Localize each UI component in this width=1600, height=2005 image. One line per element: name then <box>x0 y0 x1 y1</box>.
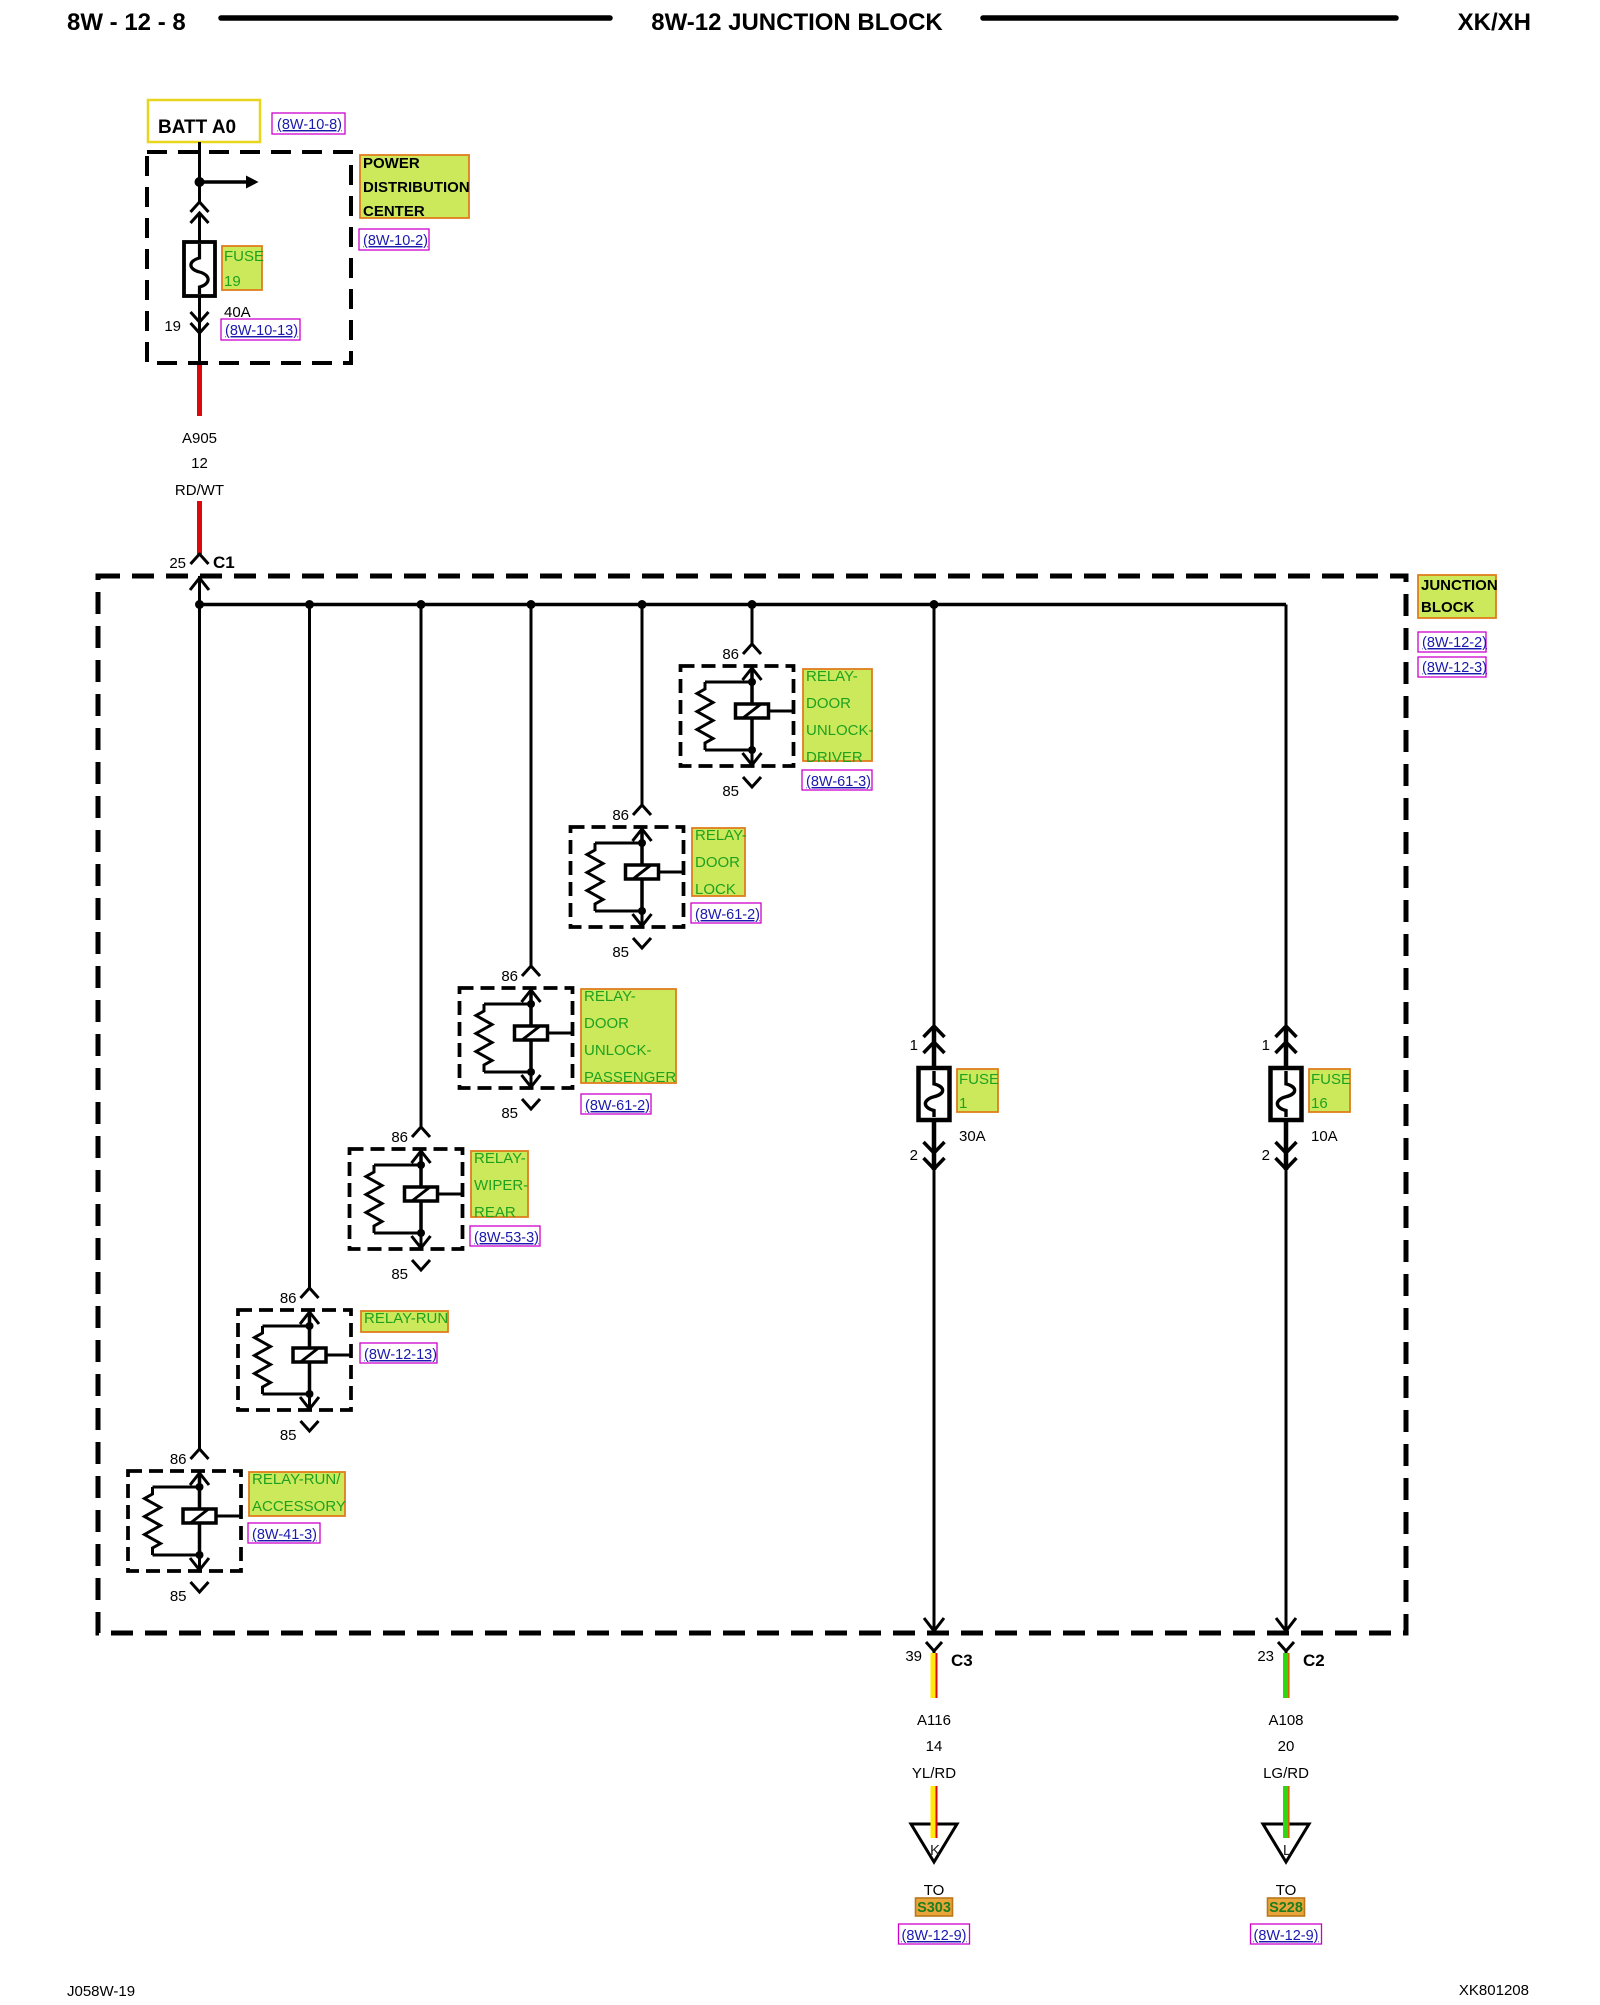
label JUNCTION BLOCK <box>1418 575 1496 618</box>
link 8W-10-13 <box>221 319 300 340</box>
svg-text:12: 12 <box>191 455 208 472</box>
svg-text:RELAY-: RELAY- <box>695 827 747 844</box>
svg-text:L: L <box>1283 1842 1291 1859</box>
svg-text:RELAY-: RELAY- <box>584 988 636 1005</box>
svg-text:86: 86 <box>170 1451 187 1468</box>
connector pin 86 of U3 RELAY-DOOR UNLOCK-PASSENGER <box>522 966 540 976</box>
svg-text:86: 86 <box>391 1129 408 1146</box>
svg-text:19: 19 <box>164 318 181 335</box>
node bus tap x=752 <box>748 600 757 609</box>
wire A116 lower segment (YL/RD) <box>931 1786 936 1838</box>
wire A905 upper segment (RD/WT) <box>197 365 202 416</box>
svg-text:(8W-12-2): (8W-12-2) <box>1422 635 1487 651</box>
svg-text:DOOR: DOOR <box>584 1015 629 1032</box>
wire from BATT A0 into PDC <box>198 142 201 203</box>
node bus tap x=309.5 <box>305 600 314 609</box>
link 8W-12-2 <box>1418 632 1486 652</box>
svg-text:DOOR: DOOR <box>806 695 851 712</box>
link (8W-61-2) of U3 RELAY-DOOR UNLOCK-PASSENGER <box>581 1094 651 1114</box>
connector pin 86 of U5 RELAY-RUN <box>301 1288 319 1298</box>
label U5 RELAY-RUN <box>361 1311 448 1332</box>
svg-text:TO: TO <box>924 1882 945 1899</box>
svg-text:30A: 30A <box>959 1128 986 1145</box>
link 8W-10-2 <box>359 229 429 250</box>
connector C1 pin 25 <box>191 554 209 564</box>
svg-text:16: 16 <box>1311 1095 1328 1112</box>
svg-text:25: 25 <box>169 555 186 572</box>
svg-text:85: 85 <box>170 1588 187 1605</box>
connector pin 85 of U1 RELAY-DOOR UNLOCK-DRIVER <box>743 777 761 787</box>
connector pin 86 of U6 RELAY-RUN/ACCESSORY <box>191 1449 209 1459</box>
svg-text:C1: C1 <box>213 553 235 572</box>
relay U6 RELAY-RUN/ACCESSORY <box>128 1471 241 1571</box>
svg-text:REAR: REAR <box>474 1204 516 1221</box>
svg-text:XK801208: XK801208 <box>1459 1982 1529 1999</box>
svg-text:(8W-12-9): (8W-12-9) <box>902 1928 967 1944</box>
svg-text:14: 14 <box>926 1738 943 1755</box>
power distribution center box <box>147 152 351 363</box>
node bus tap x=421 <box>417 600 426 609</box>
svg-text:86: 86 <box>612 807 629 824</box>
svg-text:FUSE: FUSE <box>959 1071 999 1088</box>
svg-text:CENTER: CENTER <box>363 203 425 220</box>
connector pin 86 of U1 RELAY-DOOR UNLOCK-DRIVER <box>743 644 761 654</box>
svg-text:86: 86 <box>722 646 739 663</box>
relay U5 RELAY-RUN <box>238 1310 351 1410</box>
link 8W-10-8 <box>272 113 345 134</box>
wire drop to U5 RELAY-RUN <box>308 605 311 1289</box>
header rule left <box>221 15 610 21</box>
svg-text:C2: C2 <box>1303 1651 1325 1670</box>
connector pin 1 of fuse F16 <box>1276 1026 1297 1037</box>
node bus tap x=531 <box>527 600 536 609</box>
svg-text:TO: TO <box>1276 1882 1297 1899</box>
wire below fuse F1 <box>933 1169 936 1631</box>
wire branch to right with arrow <box>200 180 248 184</box>
svg-text:86: 86 <box>501 968 518 985</box>
link (8W-61-2) of U2 RELAY-DOOR LOCK <box>691 903 761 923</box>
link 8W-12-3 <box>1418 657 1486 677</box>
svg-text:XK/XH: XK/XH <box>1458 9 1531 36</box>
svg-text:A905: A905 <box>182 430 217 447</box>
svg-text:86: 86 <box>280 1290 297 1307</box>
wire drop to U6 RELAY-RUN/ACCESSORY <box>198 605 201 1450</box>
wire A905 lower segment (RD/WT) <box>197 501 202 554</box>
connector pin 85 of U2 RELAY-DOOR LOCK <box>633 938 651 948</box>
link 8W-12-9 of S228 <box>1251 1924 1322 1944</box>
svg-text:39: 39 <box>905 1648 922 1665</box>
wire drop to U2 RELAY-DOOR LOCK <box>641 605 644 806</box>
svg-text:RELAY-: RELAY- <box>806 668 858 685</box>
svg-text:20: 20 <box>1278 1738 1295 1755</box>
svg-text:85: 85 <box>501 1105 518 1122</box>
svg-text:(8W-53-3): (8W-53-3) <box>474 1230 539 1246</box>
connector pin 85 of U3 RELAY-DOOR UNLOCK-PASSENGER <box>522 1099 540 1109</box>
svg-text:(8W-61-3): (8W-61-3) <box>806 774 871 790</box>
wire A108 lower segment (LG/RD) <box>1283 1786 1288 1838</box>
svg-text:(8W-12-9): (8W-12-9) <box>1254 1928 1319 1944</box>
node branch junction <box>195 177 205 187</box>
wire A108 upper segment (LG/RD) <box>1283 1653 1288 1698</box>
svg-text:DISTRIBUTION: DISTRIBUTION <box>363 179 470 196</box>
label FUSE 1 <box>957 1069 998 1112</box>
relay U1 RELAY-DOOR UNLOCK-DRIVER <box>681 666 794 766</box>
bus wire inside junction block <box>200 603 1287 607</box>
svg-text:POWER: POWER <box>363 155 420 172</box>
svg-text:2: 2 <box>1262 1147 1270 1164</box>
fuse F16 <box>1271 1068 1302 1120</box>
relay U4 RELAY-WIPER-REAR <box>350 1149 463 1249</box>
svg-text:ACCESSORY: ACCESSORY <box>252 1498 346 1515</box>
link (8W-12-13) of U5 RELAY-RUN <box>360 1343 437 1363</box>
junction block box <box>98 576 1406 1633</box>
svg-text:(8W-10-2): (8W-10-2) <box>363 233 428 249</box>
off-page connector K <box>911 1824 957 1862</box>
connector pin 86 of U2 RELAY-DOOR LOCK <box>633 805 651 815</box>
label U4 RELAY-WIPER-REAR <box>471 1151 528 1217</box>
svg-text:LOCK: LOCK <box>695 881 736 898</box>
link (8W-61-3) of U1 RELAY-DOOR UNLOCK-DRIVER <box>802 770 872 790</box>
svg-text:C3: C3 <box>951 1651 973 1670</box>
label U2 RELAY-DOOR LOCK <box>692 828 745 896</box>
svg-text:85: 85 <box>722 783 739 800</box>
wire to fuse 19 <box>198 213 201 242</box>
wire below fuse 19 <box>198 296 201 362</box>
wire drop to fuse F1 <box>933 605 936 1029</box>
svg-text:(8W-12-13): (8W-12-13) <box>364 1347 437 1363</box>
connector pin 86 of U4 RELAY-WIPER-REAR <box>412 1127 430 1137</box>
relay U3 RELAY-DOOR UNLOCK-PASSENGER <box>460 988 573 1088</box>
svg-text:8W - 12 - 8: 8W - 12 - 8 <box>67 9 186 36</box>
svg-text:A116: A116 <box>917 1712 951 1729</box>
svg-text:(8W-10-8): (8W-10-8) <box>277 117 342 133</box>
node bus tap x=199.5 <box>195 600 204 609</box>
label POWER DISTRIBUTION CENTER <box>360 155 469 218</box>
svg-text:UNLOCK-: UNLOCK- <box>806 722 874 739</box>
svg-text:WIPER-: WIPER- <box>474 1177 528 1194</box>
svg-text:1: 1 <box>1262 1037 1270 1054</box>
connector chevrons (in-line) <box>191 202 209 212</box>
node bus tap x=934 <box>930 600 939 609</box>
link 8W-12-9 of S303 <box>899 1924 970 1944</box>
svg-text:RELAY-RUN: RELAY-RUN <box>364 1310 448 1327</box>
connector chevrons pin 19 <box>191 312 209 322</box>
svg-text:BLOCK: BLOCK <box>1421 599 1474 616</box>
off-page connector L <box>1263 1824 1309 1862</box>
svg-text:23: 23 <box>1257 1648 1274 1665</box>
label U6 RELAY-RUN/ACCESSORY <box>249 1472 345 1516</box>
node BATT A0 <box>148 100 260 142</box>
wire drop to U4 RELAY-WIPER-REAR <box>420 605 423 1128</box>
svg-text:UNLOCK-: UNLOCK- <box>584 1042 652 1059</box>
link (8W-53-3) of U4 RELAY-WIPER-REAR <box>470 1226 540 1246</box>
svg-text:RELAY-RUN/: RELAY-RUN/ <box>252 1471 341 1488</box>
label FUSE 16 <box>1309 1069 1350 1112</box>
svg-text:(8W-61-2): (8W-61-2) <box>585 1098 650 1114</box>
fuse F1 <box>919 1068 950 1120</box>
svg-text:10A: 10A <box>1311 1128 1338 1145</box>
wire A116 upper segment (YL/RD) <box>931 1653 936 1698</box>
svg-text:FUSE: FUSE <box>224 248 264 265</box>
link (8W-41-3) of U6 RELAY-RUN/ACCESSORY <box>248 1523 320 1543</box>
header rule right <box>983 15 1396 21</box>
svg-text:1: 1 <box>910 1037 918 1054</box>
label U1 RELAY-DOOR UNLOCK-DRIVER <box>803 669 872 761</box>
svg-text:YL/RD: YL/RD <box>912 1765 956 1782</box>
connector pin 85 of U5 RELAY-RUN <box>301 1421 319 1431</box>
label U3 RELAY-DOOR UNLOCK-PASSENGER <box>581 989 676 1083</box>
wire drop to fuse F16 <box>1285 605 1288 1029</box>
connector C2 pin 23 <box>1278 1642 1294 1651</box>
node bus tap x=642 <box>638 600 647 609</box>
svg-text:85: 85 <box>391 1266 408 1283</box>
svg-text:19: 19 <box>224 273 241 290</box>
svg-text:85: 85 <box>612 944 629 961</box>
fuse F19 <box>184 242 215 296</box>
svg-text:(8W-12-3): (8W-12-3) <box>1422 660 1487 676</box>
svg-text:(8W-10-13): (8W-10-13) <box>225 323 298 339</box>
svg-text:(8W-41-3): (8W-41-3) <box>252 1527 317 1543</box>
connector C3 pin 39 <box>926 1642 942 1651</box>
svg-text:(8W-61-2): (8W-61-2) <box>695 907 760 923</box>
svg-text:PASSENGER: PASSENGER <box>584 1069 676 1086</box>
connector pin 1 of fuse F1 <box>924 1026 945 1037</box>
svg-text:8W-12 JUNCTION BLOCK: 8W-12 JUNCTION BLOCK <box>651 9 943 36</box>
wire below fuse F16 <box>1285 1169 1288 1631</box>
svg-text:2: 2 <box>910 1147 918 1164</box>
svg-text:DRIVER: DRIVER <box>806 749 863 766</box>
svg-text:BATT A0: BATT A0 <box>158 117 236 138</box>
label FUSE 19 <box>222 246 262 290</box>
relay U2 RELAY-DOOR LOCK <box>571 827 684 927</box>
svg-text:A108: A108 <box>1268 1712 1303 1729</box>
svg-text:K: K <box>930 1842 940 1859</box>
wire drop to U3 RELAY-DOOR UNLOCK-PASSENGER <box>530 605 533 967</box>
svg-text:J058W-19: J058W-19 <box>67 1983 135 2000</box>
svg-text:85: 85 <box>280 1427 297 1444</box>
svg-text:RD/WT: RD/WT <box>175 482 224 499</box>
wire drop to U1 RELAY-DOOR UNLOCK-DRIVER <box>751 605 754 645</box>
svg-text:S303: S303 <box>917 1900 951 1916</box>
svg-text:DOOR: DOOR <box>695 854 740 871</box>
svg-text:JUNCTION: JUNCTION <box>1421 577 1498 594</box>
svg-text:RELAY-: RELAY- <box>474 1150 526 1167</box>
svg-text:LG/RD: LG/RD <box>1263 1765 1309 1782</box>
svg-text:1: 1 <box>959 1095 967 1112</box>
connector pin 85 of U4 RELAY-WIPER-REAR <box>412 1260 430 1270</box>
connector pin 85 of U6 RELAY-RUN/ACCESSORY <box>191 1582 209 1592</box>
wire entry from C1 with arrow <box>198 576 201 604</box>
svg-text:S228: S228 <box>1269 1900 1303 1916</box>
svg-text:FUSE: FUSE <box>1311 1071 1351 1088</box>
